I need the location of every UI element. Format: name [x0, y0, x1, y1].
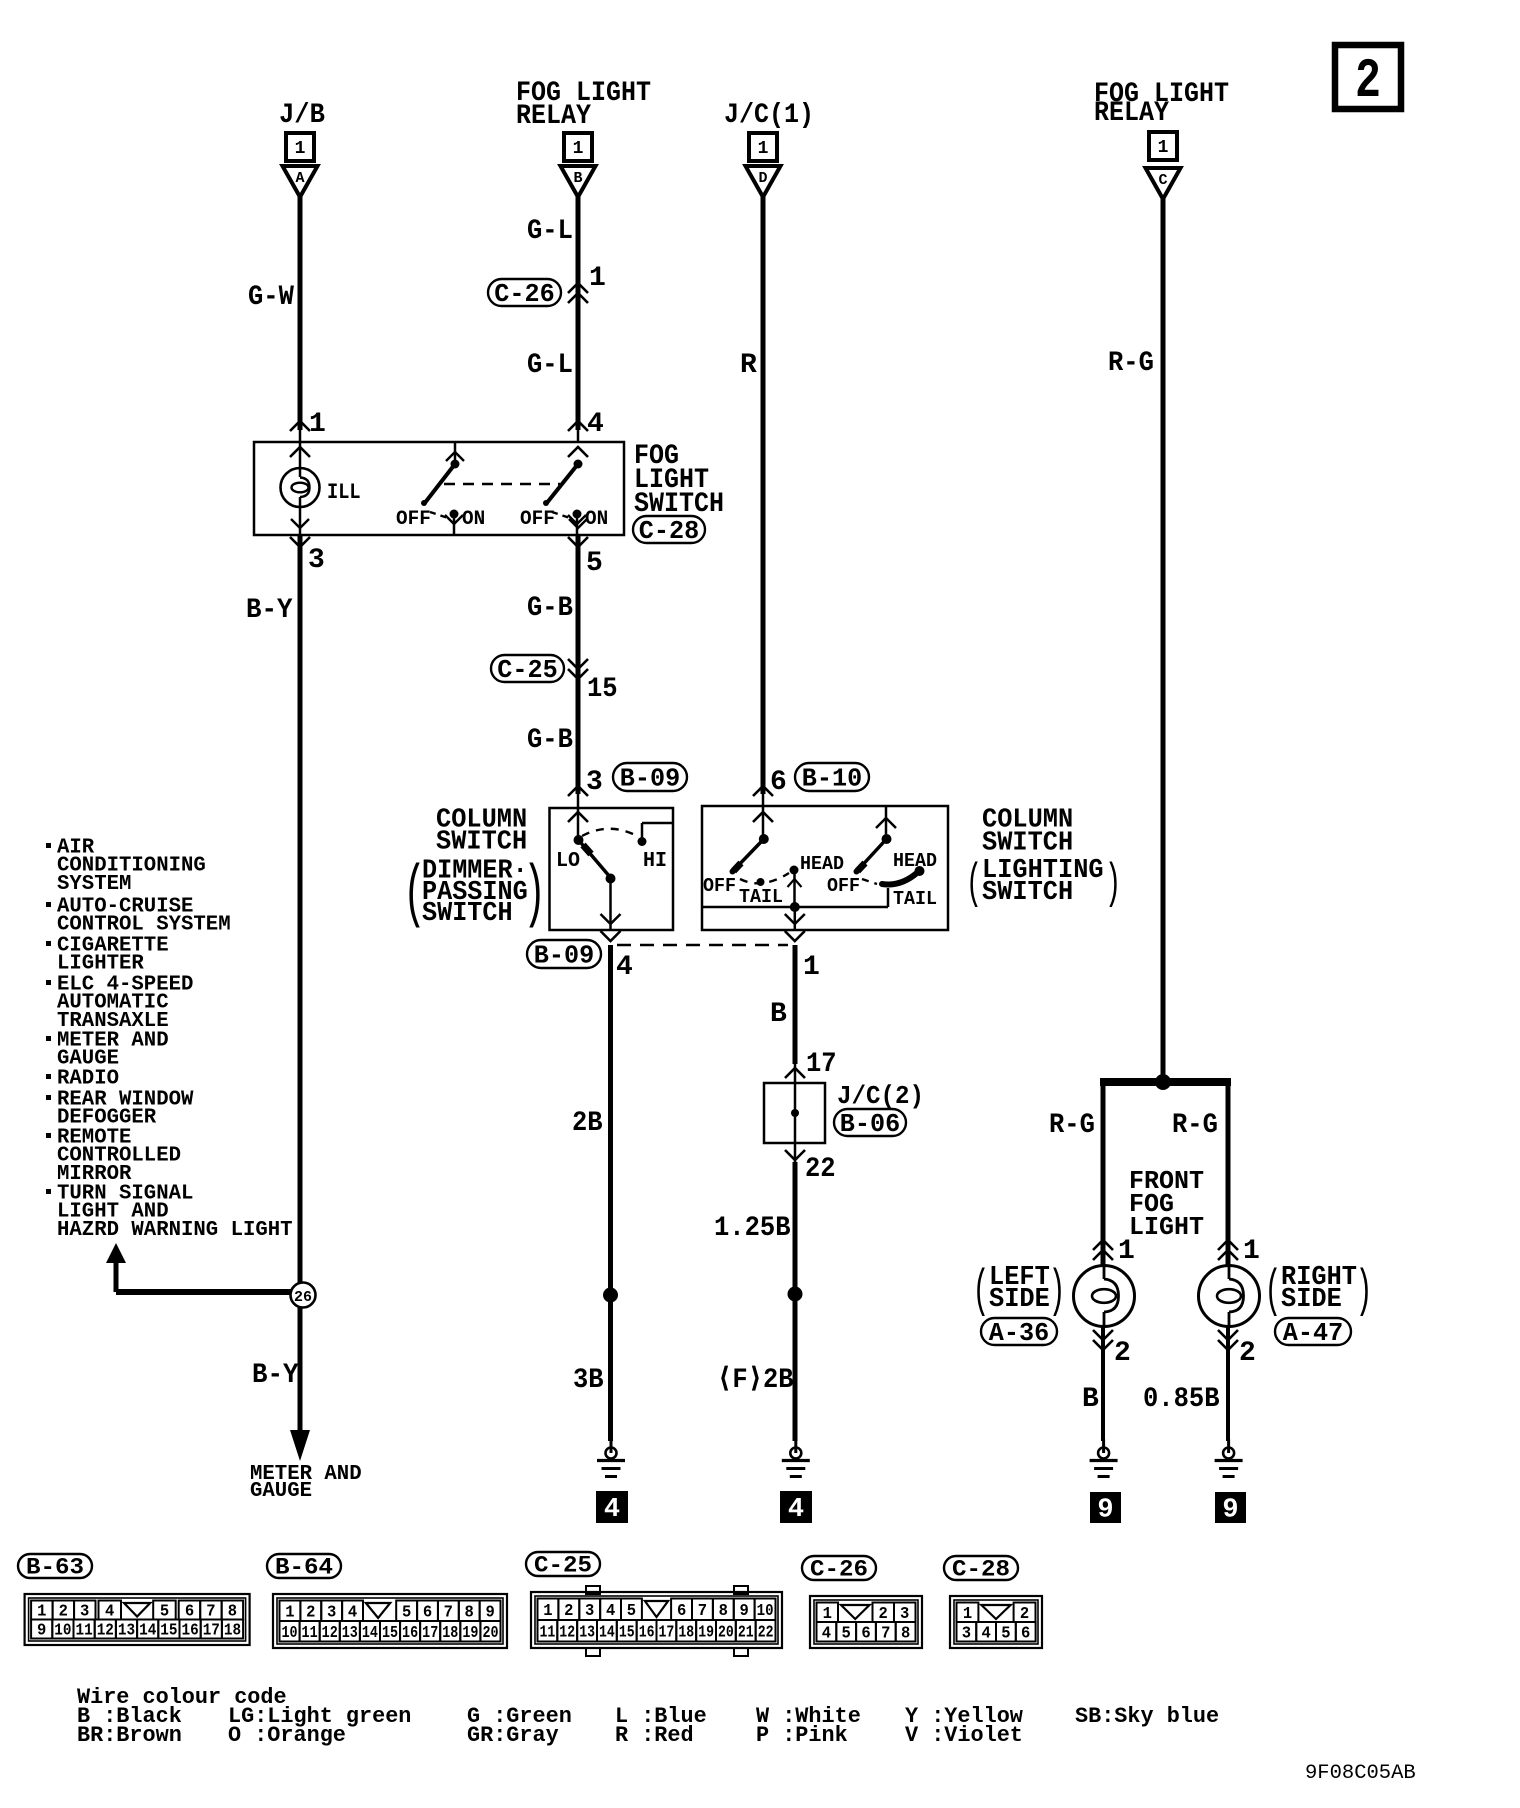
connector triangle D — [746, 166, 781, 197]
svg-text:SWITCH: SWITCH — [422, 899, 513, 929]
svg-text:1: 1 — [285, 1602, 294, 1621]
left fog light wire R-G — [1101, 1082, 1106, 1265]
svg-text:16: 16 — [639, 1622, 655, 1641]
svg-text:15: 15 — [619, 1622, 635, 1641]
svg-text:3: 3 — [308, 545, 325, 576]
svg-text:LO: LO — [556, 850, 580, 873]
svg-text:6: 6 — [185, 1602, 194, 1621]
svg-text:B: B — [573, 170, 582, 187]
svg-text:3: 3 — [327, 1602, 336, 1621]
svg-text:G-L: G-L — [527, 350, 573, 381]
svg-text:21: 21 — [738, 1622, 754, 1641]
right fog light wire R-G — [1226, 1082, 1231, 1265]
svg-text:OFF: OFF — [703, 875, 736, 897]
svg-text:(: ( — [966, 856, 982, 912]
svg-text:B-63: B-63 — [26, 1555, 84, 1581]
wire label 1.25B — [714, 1213, 791, 1244]
right fog pin 2 wire to ground — [1218, 1327, 1238, 1441]
svg-text:7: 7 — [698, 1601, 707, 1620]
connector B-09 stadium upper — [613, 763, 687, 794]
svg-text:9: 9 — [740, 1601, 749, 1620]
svg-text:17: 17 — [806, 1049, 837, 1080]
svg-text:4: 4 — [981, 1623, 990, 1642]
svg-text:3: 3 — [586, 767, 603, 798]
svg-text:4: 4 — [587, 409, 604, 440]
branch wire to systems list — [106, 1243, 291, 1292]
svg-text:B-10: B-10 — [802, 764, 862, 794]
bulb ILL inside fog light switch — [281, 442, 320, 535]
svg-text:19: 19 — [462, 1623, 478, 1642]
svg-text:12: 12 — [97, 1621, 114, 1640]
pin label 6 (lighting switch) — [770, 767, 787, 798]
svg-text:12: 12 — [322, 1623, 338, 1642]
connector A-47 stadium — [1275, 1318, 1351, 1348]
label FRONT FOG LIGHT — [1129, 1166, 1204, 1242]
label ON (S1) — [462, 508, 485, 531]
svg-text:B-64: B-64 — [275, 1555, 333, 1581]
svg-text:3: 3 — [80, 1602, 89, 1621]
svg-text:7: 7 — [881, 1623, 890, 1642]
page number box 2 — [1335, 45, 1401, 113]
pin label 4 (dimmer output) — [616, 952, 633, 983]
svg-text:6: 6 — [1021, 1623, 1030, 1642]
svg-text:O :Orange: O :Orange — [228, 1723, 346, 1748]
svg-text:5: 5 — [842, 1623, 851, 1642]
svg-text:J/C(1): J/C(1) — [724, 100, 814, 131]
svg-text:1: 1 — [543, 1601, 552, 1620]
column switch (lighting) box — [702, 806, 948, 930]
svg-text:5: 5 — [1001, 1623, 1010, 1642]
svg-text:19: 19 — [698, 1622, 714, 1641]
svg-text:1: 1 — [37, 1602, 46, 1621]
svg-text:4: 4 — [616, 952, 633, 983]
svg-text:OFF: OFF — [396, 508, 431, 531]
J/C(1) pin box 1 — [749, 133, 777, 161]
svg-text:LIGHTER: LIGHTER — [57, 953, 144, 976]
junction dot on 2B wire — [603, 1288, 618, 1303]
svg-text:G-B: G-B — [527, 725, 573, 756]
fog light switch label — [634, 441, 724, 520]
label OFF (S1) — [396, 508, 431, 531]
svg-text:C-26: C-26 — [810, 1557, 868, 1583]
wire label 0.85B — [1143, 1384, 1220, 1415]
svg-text:B: B — [770, 999, 787, 1030]
svg-text:R-G: R-G — [1172, 1110, 1218, 1141]
svg-text:SIDE: SIDE — [1281, 1285, 1342, 1315]
svg-text:R-G: R-G — [1049, 1110, 1095, 1141]
label RIGHT SIDE — [1264, 1261, 1372, 1320]
wire A below switch: B-Y to meter and gauge — [290, 519, 310, 1430]
connector pinout B-64 — [267, 1554, 341, 1581]
connector pass arrows into dimmer switch — [568, 786, 588, 822]
junction circle 26 — [291, 1283, 316, 1308]
svg-text:16: 16 — [402, 1623, 418, 1642]
label TAIL (lighting 1) — [739, 886, 783, 908]
dimmer output pass arrows — [601, 914, 621, 941]
label ON (S2) — [585, 508, 608, 531]
switch S2 (fog relay contact) — [543, 460, 586, 536]
svg-text:SB:Sky blue: SB:Sky blue — [1075, 1704, 1219, 1729]
svg-text:V :Violet: V :Violet — [905, 1723, 1023, 1748]
svg-text:9: 9 — [485, 1602, 494, 1621]
svg-text:⟨F⟩2B: ⟨F⟩2B — [717, 1365, 794, 1396]
wire label B-Y upper — [246, 595, 293, 626]
svg-text:HI: HI — [643, 850, 667, 873]
systems list (J/B feeds) — [46, 837, 293, 1242]
svg-text:4: 4 — [604, 1495, 620, 1525]
svg-text:14: 14 — [139, 1621, 156, 1640]
svg-text:5: 5 — [160, 1602, 169, 1621]
left fog light bulb — [1074, 1266, 1135, 1327]
svg-text:A: A — [295, 170, 304, 187]
svg-text:22: 22 — [805, 1154, 836, 1185]
pin label 1 (right fog) — [1243, 1236, 1260, 1267]
drawing number 9F08C05AB — [1305, 1762, 1416, 1785]
svg-text:C-26: C-26 — [494, 279, 554, 309]
J/B pin box 1 — [286, 133, 314, 161]
svg-text:R: R — [740, 350, 757, 381]
svg-text:5: 5 — [402, 1602, 411, 1621]
pin label 1 (left fog) — [1118, 1236, 1135, 1267]
svg-text:B-Y: B-Y — [252, 1360, 299, 1391]
wire colour code legend — [77, 1685, 1219, 1748]
svg-text:13: 13 — [118, 1621, 135, 1640]
svg-text:17: 17 — [203, 1621, 220, 1640]
ground symbol (left fog) — [1090, 1439, 1118, 1477]
svg-text:14: 14 — [599, 1622, 615, 1641]
svg-text:HAZRD WARNING LIGHT: HAZRD WARNING LIGHT — [57, 1219, 293, 1242]
fog light relay header label (right) — [1094, 79, 1229, 129]
svg-text:(: ( — [972, 1261, 989, 1320]
connector B-06 stadium — [834, 1109, 906, 1139]
ground ref box 4 (left) — [596, 1491, 628, 1525]
svg-text:J/B: J/B — [279, 100, 325, 131]
wire C: fog light relay down (R-G) — [1161, 196, 1166, 1082]
ground symbol (right fog) — [1215, 1439, 1243, 1477]
svg-text:J/C(2): J/C(2) — [837, 1081, 924, 1111]
svg-text:18: 18 — [442, 1623, 458, 1642]
svg-text:15: 15 — [382, 1623, 398, 1642]
pass arrows into J/C(2) — [785, 1068, 805, 1078]
switch S1 (illumination dimmer contact) — [421, 442, 464, 535]
svg-text:7: 7 — [444, 1602, 453, 1621]
label OFF (lighting 2) — [827, 875, 860, 897]
svg-text:SWITCH: SWITCH — [982, 829, 1073, 859]
svg-text:ILL: ILL — [327, 480, 361, 505]
svg-text:A-47: A-47 — [1283, 1318, 1343, 1348]
svg-text:17: 17 — [422, 1623, 438, 1642]
svg-text:(: ( — [403, 855, 426, 934]
svg-text:18: 18 — [678, 1622, 694, 1641]
label OFF (lighting 1) — [703, 875, 736, 897]
arrowhead to meter and gauge — [290, 1430, 310, 1461]
wire label G-L lower — [527, 350, 573, 381]
svg-text:10: 10 — [281, 1623, 297, 1642]
connector pass arrows at C-26 — [568, 283, 588, 303]
svg-text:G-L: G-L — [527, 216, 573, 247]
svg-text:10: 10 — [757, 1601, 774, 1620]
ground ref box 4 (right) — [780, 1491, 812, 1525]
ground ref box 9 (right fog) — [1215, 1492, 1246, 1526]
pass arrows right fog pin 1 — [1218, 1240, 1238, 1260]
pin label 4 (switch pin 4) — [587, 409, 604, 440]
svg-text:1: 1 — [758, 139, 769, 159]
svg-text:GR:Gray: GR:Gray — [467, 1723, 559, 1748]
wire label G-W — [248, 282, 294, 313]
connector pinout B-63 — [18, 1554, 92, 1581]
svg-text:11: 11 — [302, 1623, 318, 1642]
svg-text:3: 3 — [962, 1623, 971, 1642]
svg-text:9F08C05AB: 9F08C05AB — [1305, 1762, 1416, 1785]
connector A-36 stadium — [981, 1318, 1057, 1348]
ground symbol (lighting circuit) — [782, 1439, 810, 1477]
connector pass arrows wire A into switch — [290, 421, 310, 457]
svg-text:11: 11 — [76, 1621, 93, 1640]
pin label 3 — [308, 545, 325, 576]
wire label B (left fog ground) — [1082, 1384, 1099, 1415]
svg-text:B-Y: B-Y — [246, 595, 293, 626]
pin label 5 — [586, 548, 603, 579]
svg-text:HEAD: HEAD — [800, 853, 844, 875]
svg-text:C-25: C-25 — [497, 655, 557, 685]
connector J/B header label — [279, 100, 325, 131]
svg-text:4: 4 — [788, 1495, 804, 1525]
wire label G-B upper — [527, 593, 573, 624]
pin label 3 (column switch) — [586, 767, 603, 798]
svg-text:1: 1 — [1158, 138, 1169, 158]
svg-text:8: 8 — [228, 1602, 237, 1621]
fog light relay pin box 1 (C) — [1149, 132, 1177, 160]
wire label R — [740, 350, 757, 381]
right fog light bulb — [1199, 1266, 1260, 1327]
svg-text:13: 13 — [579, 1622, 595, 1641]
svg-text:6: 6 — [861, 1623, 870, 1642]
svg-text:26: 26 — [294, 1289, 312, 1306]
wire label R-G (left branch) — [1049, 1110, 1095, 1141]
dashed mechanical link between S1 and S2 — [444, 483, 560, 485]
svg-text:3: 3 — [900, 1604, 909, 1623]
svg-text:5: 5 — [627, 1601, 636, 1620]
svg-text:ON: ON — [462, 508, 485, 531]
svg-text:0.85B: 0.85B — [1143, 1384, 1220, 1415]
svg-text:1: 1 — [589, 263, 606, 294]
wire label (F)2B — [717, 1365, 794, 1396]
label HI — [643, 850, 667, 873]
column switch (dimmer-passing) box — [550, 808, 674, 930]
svg-text:6: 6 — [423, 1602, 432, 1621]
svg-text:9: 9 — [37, 1621, 46, 1640]
svg-text:(: ( — [1264, 1261, 1281, 1320]
pin label 2 (right fog) — [1239, 1338, 1256, 1369]
svg-text:4: 4 — [105, 1602, 114, 1621]
svg-text:G-W: G-W — [248, 282, 294, 313]
svg-text:6: 6 — [770, 767, 787, 798]
svg-text:BR:Brown: BR:Brown — [77, 1723, 182, 1748]
svg-text:RELAY: RELAY — [516, 101, 591, 132]
pass arrow out of J/C(2) — [785, 1150, 805, 1160]
svg-text:2: 2 — [1355, 49, 1381, 113]
fog light relay pin box 1 (B) — [564, 133, 592, 161]
svg-text:8: 8 — [719, 1601, 728, 1620]
pin label 15 — [587, 674, 618, 705]
svg-text:1.25B: 1.25B — [714, 1213, 791, 1244]
ground symbol (dimmer circuit) — [597, 1439, 625, 1477]
svg-text:C-28: C-28 — [952, 1557, 1010, 1583]
label J/C(2) — [837, 1081, 924, 1111]
svg-text:SYSTEM: SYSTEM — [57, 873, 131, 896]
svg-text:17: 17 — [659, 1622, 675, 1641]
svg-text:P :Pink: P :Pink — [756, 1723, 848, 1748]
lighting switch contact set 1 — [730, 806, 802, 907]
pin label 22 — [805, 1154, 836, 1185]
svg-text:1: 1 — [1118, 1236, 1135, 1267]
svg-text:20: 20 — [718, 1622, 734, 1641]
ground ref box 9 (left fog) — [1090, 1492, 1121, 1526]
wire label G-L upper — [527, 216, 573, 247]
svg-text:): ) — [1355, 1261, 1372, 1320]
svg-text:B: B — [1082, 1384, 1099, 1415]
pin label 1 at C-26 — [589, 263, 606, 294]
wire label 2B — [572, 1108, 603, 1139]
svg-text:1: 1 — [309, 409, 326, 440]
wire label 3B — [573, 1365, 604, 1396]
connector triangle B — [561, 166, 596, 197]
svg-text:R :Red: R :Red — [615, 1723, 694, 1748]
svg-text:B-09: B-09 — [620, 764, 680, 794]
pin label 1 (switch ILL top) — [309, 409, 326, 440]
connector pass arrows at C-25 — [568, 659, 588, 679]
svg-text:): ) — [1048, 1261, 1065, 1320]
svg-text:9: 9 — [1097, 1496, 1113, 1526]
svg-text:C: C — [1158, 172, 1167, 189]
connector pinout C-26 — [802, 1556, 876, 1583]
svg-text:): ) — [1105, 856, 1121, 912]
svg-text:C-25: C-25 — [534, 1553, 592, 1579]
svg-text:A-36: A-36 — [989, 1318, 1049, 1348]
column switch (lighting) label — [966, 806, 1121, 912]
wire from lighting pin 1 through J/C(2) to ground — [793, 945, 798, 1441]
fog light switch box — [254, 442, 624, 535]
svg-text:14: 14 — [362, 1623, 378, 1642]
svg-text:2: 2 — [1239, 1338, 1256, 1369]
svg-text:1: 1 — [823, 1604, 832, 1623]
pin label 17 — [806, 1049, 837, 1080]
label LEFT SIDE — [972, 1261, 1065, 1320]
connector B-10 stadium — [795, 763, 869, 794]
svg-text:3B: 3B — [573, 1365, 604, 1396]
svg-text:TAIL: TAIL — [893, 888, 937, 910]
wire label B — [770, 999, 787, 1030]
svg-text:11: 11 — [540, 1622, 556, 1641]
svg-text:CONTROL SYSTEM: CONTROL SYSTEM — [57, 914, 231, 937]
connector pass arrows into lighting switch — [753, 786, 773, 822]
svg-text:1: 1 — [295, 139, 306, 159]
connector B-09 stadium lower — [527, 940, 601, 971]
svg-text:ON: ON — [585, 508, 608, 531]
column switch (dimmer) label — [403, 806, 546, 935]
wire label G-B lower — [527, 725, 573, 756]
svg-text:2: 2 — [306, 1602, 315, 1621]
svg-text:15: 15 — [160, 1621, 177, 1640]
junction block J/C(2) — [764, 1083, 825, 1143]
svg-text:10: 10 — [54, 1621, 71, 1640]
svg-text:R-G: R-G — [1108, 348, 1154, 379]
lighting switch internal bus and junction — [702, 902, 888, 930]
svg-text:8: 8 — [465, 1602, 474, 1621]
svg-text:HEAD: HEAD — [893, 850, 937, 872]
svg-text:OFF: OFF — [827, 875, 860, 897]
svg-text:1: 1 — [963, 1604, 972, 1623]
tee junction on relay wire C — [1100, 1074, 1231, 1090]
svg-text:6: 6 — [677, 1601, 686, 1620]
connector pinout C-25 — [586, 1586, 748, 1656]
wire B below switch: G-B to column switch — [568, 519, 588, 808]
svg-text:SWITCH: SWITCH — [436, 828, 527, 858]
svg-text:22: 22 — [758, 1622, 774, 1641]
connector C-26 stadium — [488, 279, 561, 309]
wire D: J/C(1) to lighting switch (R) — [761, 196, 766, 806]
svg-text:SWITCH: SWITCH — [982, 878, 1073, 908]
label TAIL (lighting 2) — [893, 888, 937, 910]
svg-text:1: 1 — [573, 139, 584, 159]
svg-text:SIDE: SIDE — [989, 1285, 1050, 1315]
connector C-28 stadium at switch — [633, 516, 705, 546]
lighting switch contact set 2 — [854, 806, 925, 907]
svg-text:9: 9 — [1222, 1496, 1238, 1526]
svg-text:1: 1 — [1243, 1236, 1260, 1267]
svg-text:2: 2 — [1114, 1338, 1131, 1369]
junction dot on 1.25B wire — [788, 1287, 803, 1302]
svg-text:B-06: B-06 — [840, 1109, 900, 1139]
svg-text:D: D — [758, 170, 767, 187]
svg-text:13: 13 — [342, 1623, 358, 1642]
svg-text:): ) — [523, 855, 546, 934]
label HEAD (lighting 1) — [800, 853, 844, 875]
pass arrows left fog pin 1 — [1093, 1240, 1113, 1260]
svg-text:12: 12 — [559, 1622, 575, 1641]
svg-text:C-28: C-28 — [639, 516, 699, 546]
pin label 1 (lighting output) — [803, 952, 820, 983]
label LO — [556, 850, 580, 873]
connector C-25 stadium — [491, 655, 564, 685]
svg-text:2: 2 — [59, 1602, 68, 1621]
connector triangle C — [1146, 168, 1181, 199]
connector J/C(1) header label — [724, 100, 814, 131]
svg-text:TAIL: TAIL — [739, 886, 783, 908]
svg-text:2: 2 — [564, 1601, 573, 1620]
lighting output pass arrows — [785, 914, 805, 941]
wire from dimmer pin 4 to ground (2B/3B) — [608, 945, 613, 1441]
svg-text:G-B: G-B — [527, 593, 573, 624]
svg-text:LIGHT: LIGHT — [1129, 1212, 1204, 1242]
wire B: relay to fog light switch pin 4 (G-L) — [576, 196, 581, 442]
label HEAD (lighting 2) — [893, 850, 937, 872]
svg-text:4: 4 — [348, 1602, 357, 1621]
svg-text:4: 4 — [822, 1623, 831, 1642]
pin label 2 (left fog) — [1114, 1338, 1131, 1369]
svg-text:RELAY: RELAY — [1094, 98, 1169, 129]
svg-text:8: 8 — [901, 1623, 910, 1642]
dimmer switch contacts LO/HI — [574, 808, 674, 930]
svg-text:2B: 2B — [572, 1108, 603, 1139]
svg-text:4: 4 — [606, 1601, 615, 1620]
label ILL — [327, 480, 361, 505]
wire label R-G (relay C) — [1108, 348, 1154, 379]
svg-text:5: 5 — [586, 548, 603, 579]
svg-text:GAUGE: GAUGE — [250, 1480, 312, 1503]
connector pinout C-28 — [944, 1556, 1018, 1583]
svg-text:3: 3 — [585, 1601, 594, 1620]
